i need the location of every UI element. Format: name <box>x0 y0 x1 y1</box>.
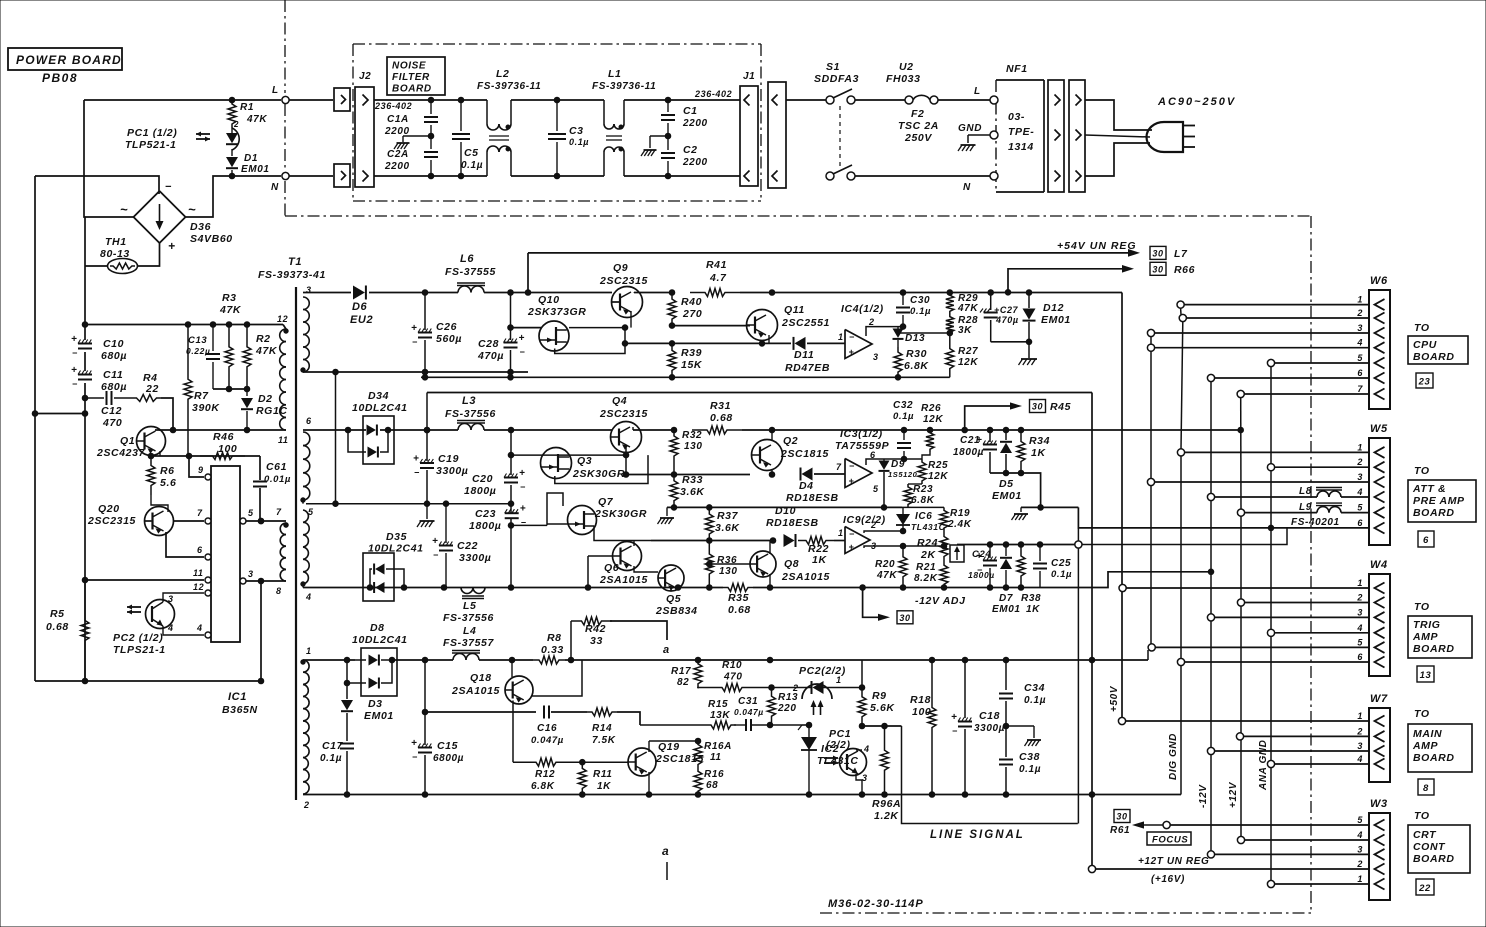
diode D7 <box>992 545 1021 616</box>
label +12T UN REG <box>1138 856 1209 885</box>
diode D6 <box>350 286 373 327</box>
resistor R21 <box>914 562 948 588</box>
resistor R10 <box>712 660 774 692</box>
capacitor C21 <box>953 430 997 473</box>
svg-text:C11: C11 <box>103 369 123 381</box>
svg-text:R18: R18 <box>910 694 931 706</box>
svg-text:8: 8 <box>1423 783 1429 794</box>
diode D11 <box>785 337 830 374</box>
svg-text:−: − <box>521 518 527 528</box>
svg-text:J1: J1 <box>743 71 755 82</box>
wire pin5 out <box>302 509 304 511</box>
svg-text:J2: J2 <box>359 71 371 82</box>
svg-text:470µ: 470µ <box>995 315 1019 325</box>
svg-text:470: 470 <box>102 417 122 429</box>
svg-text:C25: C25 <box>1051 558 1071 569</box>
wire IC9 pin2 <box>864 528 906 534</box>
resistor R3 body <box>225 325 233 390</box>
svg-text:FS-39736-11: FS-39736-11 <box>592 81 656 92</box>
svg-text:TA75559P: TA75559P <box>835 440 890 452</box>
wire Q10 gate <box>508 325 541 331</box>
capacitor C1 <box>661 100 708 129</box>
svg-text:250V: 250V <box>904 132 932 144</box>
diode D8 pair <box>344 622 407 696</box>
svg-text:C15: C15 <box>437 740 458 752</box>
resistor R38 <box>1017 545 1041 616</box>
wire W6 pin7 <box>1237 390 1369 397</box>
svg-text:3300µ: 3300µ <box>459 552 491 564</box>
resistor R19 <box>940 507 972 531</box>
svg-text:2: 2 <box>792 683 799 693</box>
resistor R46 <box>200 431 245 460</box>
resistor R30 <box>894 340 929 377</box>
svg-text:FS-37555: FS-37555 <box>445 266 496 278</box>
svg-text:2200: 2200 <box>682 157 708 168</box>
wire pc1 collector <box>856 749 862 751</box>
wire L1 to J1 top <box>624 97 740 103</box>
svg-text:RD18ESB: RD18ESB <box>766 517 819 529</box>
capacitor C15 <box>411 660 464 795</box>
svg-text:6: 6 <box>1357 368 1363 378</box>
svg-text:3: 3 <box>862 773 868 783</box>
svg-text:1800µ: 1800µ <box>953 447 984 458</box>
svg-text:L4: L4 <box>463 625 476 637</box>
svg-text:1314: 1314 <box>1008 141 1034 153</box>
svg-text:L5: L5 <box>463 600 476 612</box>
resistor R39 <box>668 343 703 377</box>
svg-text:560µ: 560µ <box>436 333 462 345</box>
wire IC4 out to D13 <box>866 327 903 336</box>
wire R22 to IC9 <box>834 528 845 541</box>
svg-text:3.6K: 3.6K <box>680 486 705 498</box>
wire L line <box>84 97 281 103</box>
svg-text:100: 100 <box>218 443 237 455</box>
svg-text:+: + <box>413 454 419 465</box>
svg-text:+: + <box>432 536 438 547</box>
wire W3 pin4 <box>1237 836 1369 843</box>
svg-text:C13: C13 <box>188 335 207 346</box>
svg-text:−: − <box>849 529 855 539</box>
wire pc1 emitter <box>856 774 862 795</box>
bridge rectifier D36 <box>120 181 233 253</box>
opto PC2 <box>113 594 175 656</box>
wire Q9 right rail <box>634 290 675 296</box>
svg-text:11: 11 <box>710 752 722 763</box>
op-amp IC4 <box>841 303 884 362</box>
svg-text:NF1: NF1 <box>1006 63 1028 75</box>
svg-text:R8: R8 <box>547 632 562 644</box>
svg-text:236-402: 236-402 <box>374 101 412 111</box>
svg-text:R27: R27 <box>958 346 978 357</box>
svg-text:2SC2315: 2SC2315 <box>599 408 648 420</box>
svg-text:a: a <box>662 844 669 858</box>
svg-text:6.8K: 6.8K <box>531 781 555 792</box>
wire R40 to Q11 base <box>669 323 750 329</box>
svg-text:TO: TO <box>1414 708 1430 720</box>
resistor R24 <box>917 531 948 562</box>
ac plug <box>1147 122 1195 152</box>
svg-text:4: 4 <box>196 623 203 633</box>
svg-text:IC6: IC6 <box>915 511 932 522</box>
wire Q8 <box>707 541 771 588</box>
wire Q2 to wire <box>771 430 773 474</box>
svg-text:6: 6 <box>1357 652 1363 662</box>
IC1 pin12 <box>193 582 211 596</box>
wire aux bottom to bottom rail <box>260 581 262 681</box>
svg-text:30: 30 <box>1116 812 1127 822</box>
wire center tap <box>333 372 339 507</box>
svg-text:10DL2C41: 10DL2C41 <box>352 402 408 414</box>
resistor R9 <box>858 660 895 726</box>
wire W4 pin6 <box>1177 658 1369 665</box>
svg-text:D7: D7 <box>999 593 1013 604</box>
bus +12V 1241 <box>1228 398 1241 837</box>
wire mid to D11 <box>762 342 791 344</box>
resistor R26 <box>921 403 943 452</box>
capacitor C11 <box>71 365 127 393</box>
svg-text:W5: W5 <box>1370 423 1388 435</box>
svg-text:0.047µ: 0.047µ <box>531 735 564 746</box>
capacitor C18 <box>951 660 1005 795</box>
transistor Q8 2SA1015 <box>750 551 830 583</box>
svg-text:D36: D36 <box>190 221 211 233</box>
wire W7 pin3 <box>1207 747 1369 754</box>
wire c27 d12 bottom <box>991 339 1032 345</box>
T1 sec winding pins5-4 <box>301 500 314 602</box>
connector right of J1 <box>768 82 786 188</box>
resistor R5 <box>46 580 89 681</box>
connector W4 <box>1356 559 1390 676</box>
wire Q3 gate wire <box>511 452 629 458</box>
svg-text:4: 4 <box>167 623 174 633</box>
svg-text:IC4(1/2): IC4(1/2) <box>841 303 884 315</box>
svg-text:EM01: EM01 <box>364 710 394 722</box>
svg-text:0.1µ: 0.1µ <box>1051 569 1072 580</box>
svg-text:−: − <box>433 550 439 560</box>
wire Q18 base <box>511 660 513 677</box>
wire N jog to bridge <box>186 176 232 217</box>
ground c1/c2 <box>641 136 668 156</box>
svg-text:~: ~ <box>188 202 196 217</box>
svg-text:C38: C38 <box>1019 751 1040 763</box>
svg-text:F2: F2 <box>911 108 924 120</box>
wire r17 r10 rail <box>698 687 713 688</box>
svg-text:1K: 1K <box>1031 447 1046 459</box>
svg-text:W7: W7 <box>1370 693 1388 705</box>
capacitor C26 <box>411 293 462 373</box>
svg-text:C31: C31 <box>738 696 758 707</box>
svg-text:TO: TO <box>1414 601 1430 613</box>
resistor R2 <box>243 325 278 390</box>
svg-text:5: 5 <box>248 508 254 518</box>
svg-text:3: 3 <box>168 594 174 604</box>
transistor Q2 2SC1815 <box>752 435 829 471</box>
svg-text:ANA GND: ANA GND <box>1258 740 1269 792</box>
svg-text:R13: R13 <box>778 692 798 703</box>
svg-text:270: 270 <box>682 308 702 320</box>
wire r14 right <box>617 712 640 725</box>
svg-text:5: 5 <box>1357 353 1363 363</box>
svg-text:6: 6 <box>1423 535 1429 546</box>
wire W6 pin2 <box>1179 314 1369 321</box>
svg-text:Q10: Q10 <box>538 294 560 306</box>
svg-text:130: 130 <box>684 441 703 452</box>
wire R4 to Q1 wire <box>161 398 176 433</box>
svg-text:C32: C32 <box>893 400 913 411</box>
svg-text:1: 1 <box>838 332 844 342</box>
svg-text:1800µ: 1800µ <box>469 520 501 532</box>
svg-text:PRE AMP: PRE AMP <box>1413 495 1465 507</box>
svg-text:BOARD: BOARD <box>1413 853 1455 865</box>
wire R31 right <box>742 427 965 433</box>
svg-text:82: 82 <box>677 677 689 688</box>
node a stub <box>662 844 669 880</box>
resistor R15 <box>640 699 736 729</box>
svg-text:12K: 12K <box>958 357 978 368</box>
svg-text:2SK373GR: 2SK373GR <box>527 306 587 318</box>
wire c31 to r13 <box>767 722 773 728</box>
svg-text:C5: C5 <box>464 147 479 159</box>
T1 primary winding pins 12-11 <box>277 314 289 445</box>
svg-text:3: 3 <box>248 569 254 579</box>
svg-text:C30: C30 <box>910 295 930 306</box>
svg-text:+: + <box>849 476 855 486</box>
svg-text:13: 13 <box>1420 670 1432 681</box>
wire W4 pin5 <box>1148 644 1369 660</box>
label 236-402 left <box>374 101 412 111</box>
svg-text:R42: R42 <box>585 623 606 635</box>
svg-text:−: − <box>165 181 172 193</box>
inductor L2 common-mode choke <box>477 68 541 176</box>
svg-text:R15: R15 <box>708 699 728 710</box>
svg-text:+50V: +50V <box>1109 685 1120 712</box>
wire L to J2 <box>289 99 333 101</box>
svg-text:1.2K: 1.2K <box>874 810 899 822</box>
op-amp IC3 <box>835 428 890 494</box>
capacitor C19 <box>413 430 468 504</box>
wire Q4 base to mid <box>625 455 627 474</box>
wire R41 right <box>740 290 950 296</box>
wire Q4 right rail <box>633 427 677 433</box>
svg-text:−: − <box>849 461 855 471</box>
svg-text:C3: C3 <box>569 125 584 137</box>
wire node to W5 pin6 jog <box>1082 528 1287 545</box>
svg-text:Q6: Q6 <box>604 562 619 574</box>
svg-text:5.6: 5.6 <box>160 477 176 489</box>
svg-text:D1: D1 <box>244 153 258 164</box>
svg-text:236-402: 236-402 <box>694 89 732 99</box>
diode D10 <box>766 505 819 547</box>
label TO MAIN AMP BOARD <box>1408 708 1472 772</box>
svg-text:C23: C23 <box>475 508 496 520</box>
svg-text:11: 11 <box>193 568 204 578</box>
svg-text:1: 1 <box>838 528 844 538</box>
wire W6 pin5 <box>1267 359 1369 366</box>
svg-text:1: 1 <box>1357 442 1363 452</box>
svg-text:R40: R40 <box>681 296 702 308</box>
svg-text:+: + <box>71 334 77 345</box>
transistor Q1 <box>96 427 166 460</box>
svg-text:2200: 2200 <box>682 118 708 129</box>
svg-text:−: − <box>520 347 526 357</box>
capacitor C5 <box>452 100 483 176</box>
wire d9 r25 top <box>884 456 922 462</box>
capacitor C23 <box>469 504 527 532</box>
svg-text:7.5K: 7.5K <box>592 735 616 746</box>
wire pin11 to rail <box>82 577 204 583</box>
svg-text:R11: R11 <box>593 769 612 780</box>
svg-text:−: − <box>952 726 958 736</box>
wire pin11 <box>155 427 286 433</box>
svg-text:1800µ: 1800µ <box>464 485 496 497</box>
svg-text:L1: L1 <box>608 68 621 80</box>
capacitor C38 <box>999 723 1041 794</box>
svg-text:2200: 2200 <box>384 161 410 172</box>
svg-text:+: + <box>411 738 417 749</box>
NF1 chevron column 2 <box>1069 80 1085 192</box>
wire Q6 q5 links <box>634 541 658 573</box>
svg-text:N: N <box>963 182 971 193</box>
svg-text:C2A: C2A <box>387 149 409 160</box>
svg-text:+54V UN REG: +54V UN REG <box>1057 240 1137 252</box>
svg-text:5: 5 <box>1357 637 1363 647</box>
svg-text:EU2: EU2 <box>350 314 373 326</box>
wire W6 pin6 <box>1207 374 1369 381</box>
svg-text:6: 6 <box>197 545 203 555</box>
svg-text:R3: R3 <box>222 292 237 304</box>
svg-text:+: + <box>168 239 176 253</box>
bus 1078 vertical <box>1077 528 1079 824</box>
svg-text:5: 5 <box>308 507 314 517</box>
svg-text:4.7: 4.7 <box>709 272 727 284</box>
svg-text:FILTER: FILTER <box>392 72 430 83</box>
svg-text:C17: C17 <box>322 740 344 752</box>
wire row3 neg out <box>987 585 1040 591</box>
svg-text:R2: R2 <box>256 333 271 345</box>
wire pin1 to D8 <box>303 659 355 661</box>
transistor Q6 2SA1015 <box>599 542 648 587</box>
resistor R42 <box>571 617 612 660</box>
svg-text:2SC2551: 2SC2551 <box>781 317 830 329</box>
svg-text:Q11: Q11 <box>784 304 805 316</box>
capacitor C2A <box>384 125 438 176</box>
wire Q20 emitter to pin6 <box>166 532 204 557</box>
IC1 pin3 right <box>240 569 254 584</box>
svg-text:R16A: R16A <box>704 741 732 752</box>
svg-text:C22: C22 <box>457 540 478 552</box>
power board title box <box>8 48 122 85</box>
wire row4 mid1 <box>422 709 536 715</box>
wire q19 emitter <box>648 772 650 795</box>
wire L3 right <box>484 427 612 433</box>
wire D4 to IC3 <box>814 462 845 474</box>
capacitor C30 <box>896 293 931 330</box>
wire R28 to D13 col <box>898 332 950 334</box>
svg-text:3: 3 <box>306 285 312 295</box>
svg-text:R45: R45 <box>1050 401 1071 413</box>
svg-text:Q1: Q1 <box>120 435 135 447</box>
svg-text:R39: R39 <box>681 347 702 359</box>
svg-text:R7: R7 <box>194 390 209 402</box>
svg-text:0.1µ: 0.1µ <box>1019 764 1041 775</box>
svg-text:6.8K: 6.8K <box>904 360 929 372</box>
svg-text:2: 2 <box>868 317 875 327</box>
svg-text:TPE-: TPE- <box>1008 126 1034 138</box>
svg-text:BOARD: BOARD <box>1413 507 1455 519</box>
svg-text:−: − <box>849 332 855 342</box>
svg-text:7: 7 <box>836 462 842 472</box>
resistor R16A <box>694 741 732 768</box>
capacitor C1A <box>384 100 438 137</box>
wire Q9 base <box>612 301 619 303</box>
svg-text:BOARD: BOARD <box>1413 643 1455 655</box>
wire row2 boundary drop <box>424 393 430 433</box>
wire r9 bottom <box>859 723 901 729</box>
resistor R29 <box>946 293 979 315</box>
svg-text:LINE SIGNAL: LINE SIGNAL <box>930 829 1025 841</box>
svg-text:TO: TO <box>1414 322 1430 334</box>
outer left rail <box>34 176 36 681</box>
svg-text:L: L <box>272 85 279 96</box>
svg-text:1800µ: 1800µ <box>968 570 995 580</box>
IC IC1 B365N <box>211 466 258 716</box>
svg-text:GND: GND <box>958 123 982 134</box>
svg-text:FOCUS: FOCUS <box>1152 835 1188 846</box>
svg-text:R61: R61 <box>1110 825 1130 836</box>
wire fuse to NF1 <box>938 86 991 100</box>
wire Q10 drain <box>569 325 628 331</box>
wire W5 pin6 feed <box>1078 507 1368 530</box>
svg-text:100: 100 <box>912 706 931 718</box>
ground c19 <box>417 504 435 527</box>
svg-text:3: 3 <box>1357 323 1363 333</box>
svg-text:B365N: B365N <box>222 704 258 716</box>
svg-text:4: 4 <box>863 744 870 754</box>
resistor R4 <box>114 372 161 402</box>
wire r28-r27 gap <box>949 335 951 340</box>
transistor Q10 2SK373GR <box>527 294 587 351</box>
svg-text:C18: C18 <box>979 710 1000 722</box>
svg-text:L8: L8 <box>1299 486 1312 497</box>
svg-text:2SK30GR: 2SK30GR <box>594 508 647 520</box>
svg-text:R26: R26 <box>921 403 941 414</box>
wire c13-r3-r2 bottom <box>213 386 250 392</box>
svg-text:4: 4 <box>1356 487 1363 497</box>
capacitor C12 <box>82 391 122 429</box>
svg-text:30: 30 <box>1032 402 1043 412</box>
resistor R20 <box>875 546 907 588</box>
svg-text:23: 23 <box>1418 377 1431 388</box>
svg-text:4: 4 <box>305 592 312 602</box>
svg-text:-12V: -12V <box>1198 784 1209 808</box>
capacitor C31 <box>734 696 770 731</box>
wire Q18 emitter <box>531 660 582 696</box>
svg-text:15K: 15K <box>681 359 703 371</box>
wire W5 pin4 L8 <box>1207 486 1369 501</box>
transistor Q18 2SA1015 <box>451 672 533 704</box>
svg-text:FS-37556: FS-37556 <box>445 408 496 420</box>
svg-text:30: 30 <box>1152 264 1163 274</box>
bus +12T vertical <box>1091 393 1093 866</box>
connector W3 <box>1356 798 1390 900</box>
wire C61 bottom join <box>258 518 264 524</box>
wire pin3 bottom rail <box>303 369 528 375</box>
wire row2 out junctions <box>962 427 1244 433</box>
wire c19 c20 bottom <box>306 501 514 507</box>
svg-text:6: 6 <box>1357 518 1363 528</box>
capacitor C20 <box>464 430 526 504</box>
wire r16a junction <box>695 738 701 744</box>
